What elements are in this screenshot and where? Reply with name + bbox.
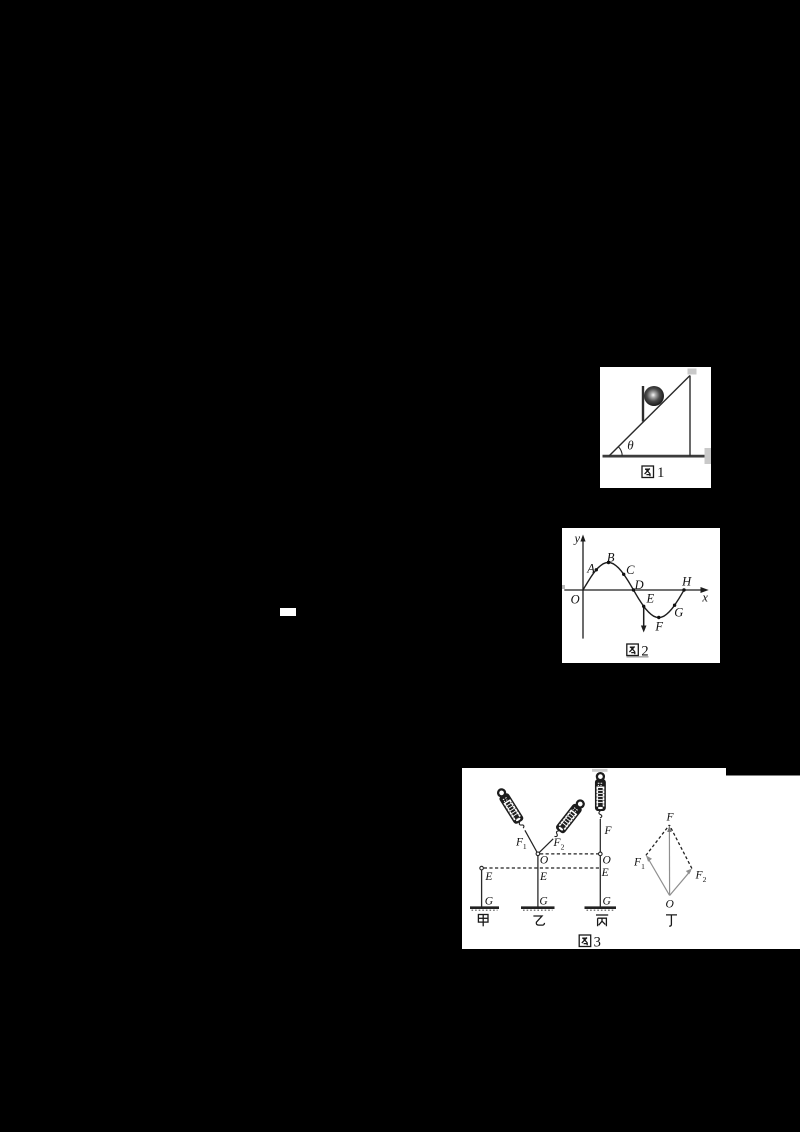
bing band <box>599 856 601 907</box>
svg-text:G: G <box>539 896 548 908</box>
yi band <box>537 856 539 907</box>
caption tu glyph (图) <box>579 935 591 947</box>
yi O ring <box>536 852 540 856</box>
svg-text:3: 3 <box>594 934 601 949</box>
svg-text:G: G <box>485 896 494 908</box>
jia band <box>481 870 483 907</box>
figure 3 box <box>462 768 800 949</box>
angle arc <box>618 447 622 456</box>
svg-text:θ: θ <box>627 438 634 453</box>
dashed side F1tip to F <box>646 825 670 855</box>
svg-text:C: C <box>626 563 635 577</box>
svg-text:A: A <box>586 562 595 576</box>
caption tu glyph (图) <box>642 466 654 478</box>
svg-text:B: B <box>607 550 615 564</box>
svg-text:E: E <box>539 871 547 883</box>
svg-text:O: O <box>540 854 549 866</box>
scan artifact gray patch right edge <box>705 448 712 464</box>
ball <box>644 386 664 406</box>
svg-text:E: E <box>645 592 654 606</box>
svg-text:G: G <box>603 896 612 908</box>
point dots <box>595 568 598 571</box>
svg-text:E: E <box>601 867 609 879</box>
bing O ring <box>599 852 603 856</box>
component arrow O to F2 <box>670 871 691 896</box>
bing glyph (丙) <box>596 915 608 926</box>
white dash mark <box>280 608 296 616</box>
resultant arrow O to F <box>668 829 670 896</box>
svg-text:D: D <box>634 578 644 592</box>
yi: right spring scale F2 <box>551 798 586 839</box>
svg-text:2: 2 <box>641 643 648 659</box>
svg-text:F: F <box>665 812 674 824</box>
svg-text:y: y <box>573 532 581 546</box>
string from F2 hook to O <box>538 839 553 854</box>
string from hook to O <box>599 819 601 852</box>
svg-text:O: O <box>571 593 580 607</box>
svg-text:O: O <box>603 854 612 866</box>
svg-text:1: 1 <box>523 842 527 851</box>
caption underline gray <box>627 656 649 658</box>
ding glyph (丁) <box>666 915 677 926</box>
sine curve <box>583 563 684 618</box>
post holding ball <box>642 386 644 422</box>
yi: left spring scale F1 <box>496 787 528 830</box>
svg-text:G: G <box>674 606 683 620</box>
svg-text:2: 2 <box>561 842 565 851</box>
jia glyph (甲) <box>478 915 488 927</box>
dashed line at O level <box>540 853 598 855</box>
y-axis <box>582 540 584 639</box>
force arrow down from E <box>643 606 645 628</box>
svg-text:E: E <box>484 871 492 883</box>
scan artifact gray patch top right <box>688 369 697 375</box>
svg-text:1: 1 <box>641 862 645 871</box>
bing ground <box>585 906 617 909</box>
svg-text:H: H <box>681 575 692 589</box>
gray patch above scale of bing <box>592 769 608 772</box>
dashed side F2tip to F <box>669 825 692 869</box>
figure 2 box <box>562 528 720 663</box>
caption tu glyph (图) <box>627 644 639 656</box>
svg-text:F: F <box>603 825 612 837</box>
jia ground <box>470 906 499 909</box>
svg-text:F: F <box>654 619 663 633</box>
black notch top right <box>726 768 800 776</box>
bing: vertical spring scale F <box>596 773 605 818</box>
x-axis <box>564 589 702 591</box>
axis labels <box>571 532 709 634</box>
incline vertical side <box>689 376 691 457</box>
jia: ring at top of band <box>480 866 484 870</box>
svg-text:O: O <box>665 899 674 911</box>
svg-text:x: x <box>701 591 708 605</box>
string from F1 hook to O <box>525 830 538 854</box>
ground line <box>603 455 705 457</box>
svg-text:2: 2 <box>703 875 707 884</box>
component arrow O to F1 <box>648 858 670 896</box>
incline hypotenuse <box>609 376 690 457</box>
scan artifact gray mark left edge <box>562 585 565 589</box>
yi ground <box>521 906 555 909</box>
svg-text:1: 1 <box>657 465 664 481</box>
yi glyph (乙) <box>533 916 544 925</box>
dashed line at E level <box>484 867 599 869</box>
figure 1 box <box>600 367 711 488</box>
